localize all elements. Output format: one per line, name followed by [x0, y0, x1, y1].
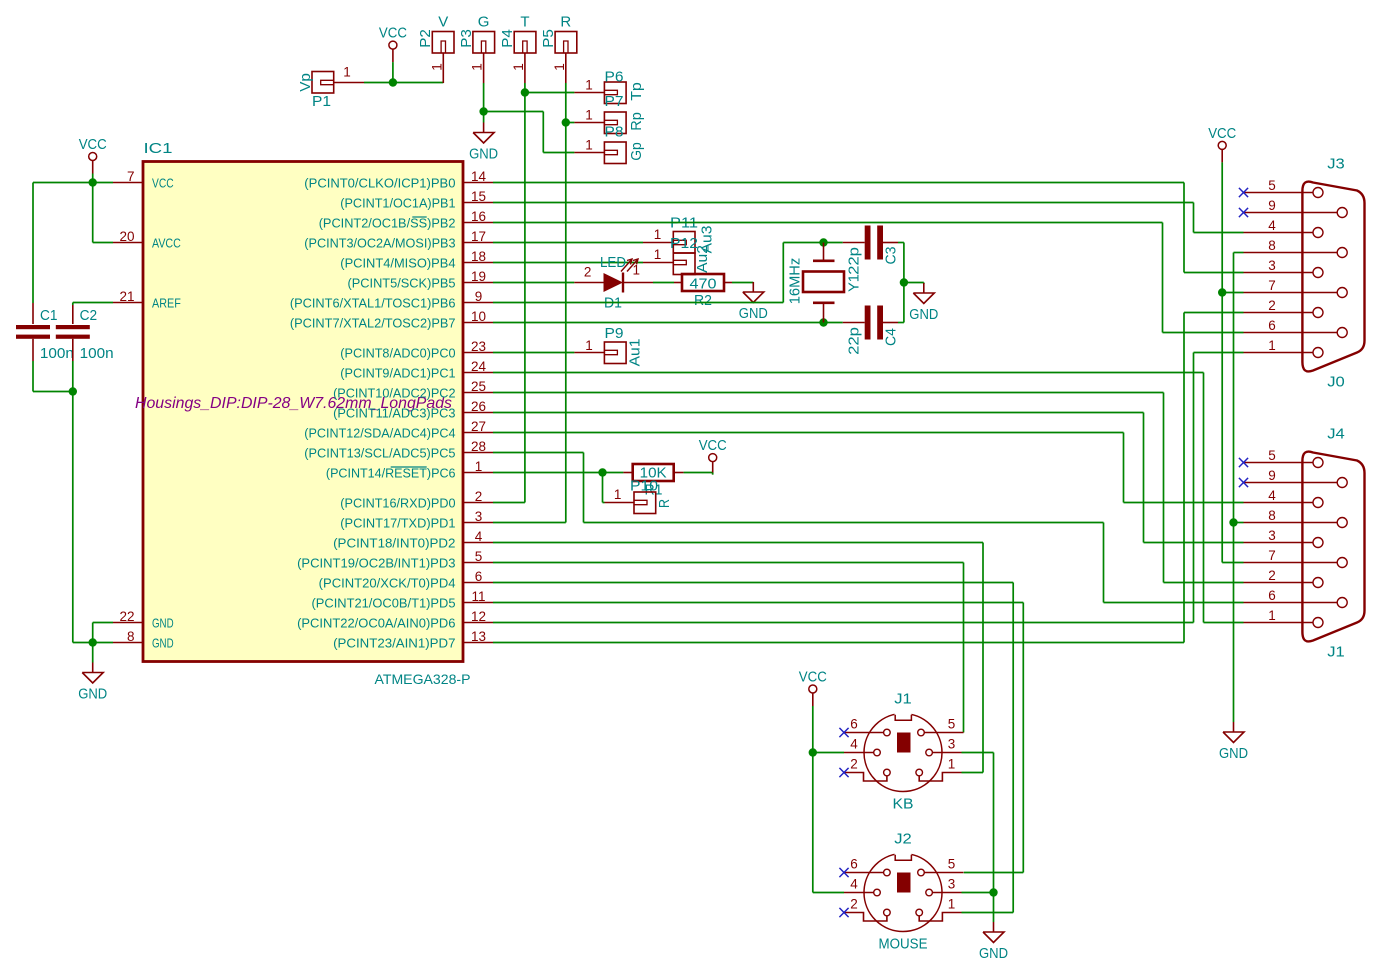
svg-text:J2: J2: [894, 831, 912, 848]
svg-text:7: 7: [1268, 278, 1276, 293]
svg-text:Au3: Au3: [698, 226, 715, 254]
svg-text:J0: J0: [1327, 374, 1345, 391]
svg-text:100n: 100n: [80, 345, 114, 362]
svg-text:15: 15: [471, 189, 486, 204]
svg-text:2: 2: [475, 489, 483, 504]
svg-text:(PCINT16/RXD)PD0: (PCINT16/RXD)PD0: [340, 496, 455, 511]
svg-text:23: 23: [471, 339, 486, 354]
svg-text:(PCINT11/ADC3)PC3: (PCINT11/ADC3)PC3: [333, 406, 455, 421]
svg-text:V: V: [438, 14, 448, 31]
svg-text:C4: C4: [882, 328, 899, 346]
svg-text:19: 19: [471, 269, 486, 284]
svg-text:4: 4: [850, 737, 858, 752]
svg-text:16: 16: [471, 209, 486, 224]
svg-text:3: 3: [948, 737, 956, 752]
svg-text:VCC: VCC: [379, 25, 407, 42]
svg-text:(PCINT1/OC1A)PB1: (PCINT1/OC1A)PB1: [340, 196, 455, 211]
svg-text:G: G: [478, 14, 490, 31]
svg-text:(PCINT5/SCK)PB5: (PCINT5/SCK)PB5: [348, 276, 456, 291]
svg-text:26: 26: [471, 399, 486, 414]
svg-text:Gp: Gp: [628, 142, 645, 161]
svg-text:P2: P2: [417, 29, 434, 48]
svg-text:P7: P7: [605, 93, 624, 110]
svg-text:(PCINT8/ADC0)PC0: (PCINT8/ADC0)PC0: [340, 346, 455, 361]
svg-text:LED: LED: [600, 254, 626, 271]
svg-text:Vp: Vp: [297, 73, 314, 92]
svg-text:22: 22: [119, 609, 134, 624]
svg-text:KB: KB: [893, 796, 914, 813]
svg-text:P6: P6: [605, 69, 624, 86]
svg-text:R: R: [656, 499, 673, 508]
svg-text:5: 5: [948, 717, 956, 732]
svg-text:6: 6: [850, 857, 858, 872]
svg-text:14: 14: [471, 169, 487, 184]
svg-text:3: 3: [1268, 258, 1276, 273]
svg-text:9: 9: [1268, 198, 1276, 213]
svg-text:5: 5: [1268, 448, 1276, 463]
svg-text:J3: J3: [1327, 156, 1345, 173]
svg-text:(PCINT9/ADC1)PC1: (PCINT9/ADC1)PC1: [340, 366, 455, 381]
svg-text:(PCINT7/XTAL2/TOSC2)PB7: (PCINT7/XTAL2/TOSC2)PB7: [290, 316, 456, 331]
svg-text:GND: GND: [909, 306, 938, 323]
svg-text:4: 4: [1268, 218, 1276, 233]
svg-text:5: 5: [475, 549, 483, 564]
svg-text:(PCINT23/AIN1)PD7: (PCINT23/AIN1)PD7: [333, 636, 455, 651]
svg-text:R: R: [560, 14, 571, 31]
svg-text:8: 8: [127, 629, 135, 644]
svg-text:1: 1: [511, 63, 526, 71]
svg-text:(PCINT19/OC2B/INT1)PD3: (PCINT19/OC2B/INT1)PD3: [297, 556, 455, 571]
svg-text:1: 1: [585, 138, 593, 153]
svg-text:11: 11: [471, 589, 485, 604]
svg-text:2: 2: [1268, 298, 1276, 313]
svg-text:(PCINT10/ADC2)PC2: (PCINT10/ADC2)PC2: [333, 386, 455, 401]
svg-text:ATMEGA328-P: ATMEGA328-P: [375, 671, 471, 687]
svg-text:Tp: Tp: [628, 82, 645, 101]
svg-text:3: 3: [948, 877, 956, 892]
svg-text:1: 1: [470, 63, 485, 71]
svg-text:6: 6: [1268, 318, 1276, 333]
svg-text:8: 8: [1268, 508, 1276, 523]
svg-text:Rp: Rp: [628, 112, 645, 131]
svg-text:VCC: VCC: [1208, 125, 1236, 142]
svg-text:1: 1: [614, 487, 622, 502]
svg-text:Y1: Y1: [845, 274, 862, 292]
svg-text:9: 9: [1268, 468, 1276, 483]
svg-text:9: 9: [475, 289, 483, 304]
svg-text:AVCC: AVCC: [152, 236, 181, 251]
svg-text:C2: C2: [80, 307, 98, 324]
svg-text:GND: GND: [78, 686, 107, 703]
svg-text:2: 2: [850, 757, 858, 772]
svg-text:GND: GND: [1219, 745, 1248, 762]
svg-text:5: 5: [948, 857, 956, 872]
svg-text:1: 1: [585, 108, 593, 123]
svg-text:P5: P5: [540, 29, 557, 48]
svg-text:1: 1: [948, 897, 956, 912]
svg-text:27: 27: [471, 419, 486, 434]
svg-text:100n: 100n: [40, 345, 74, 362]
svg-text:13: 13: [471, 629, 486, 644]
svg-text:1: 1: [343, 65, 351, 80]
svg-text:J4: J4: [1327, 426, 1345, 443]
svg-text:VCC: VCC: [79, 136, 107, 153]
svg-text:470: 470: [690, 276, 717, 293]
svg-text:VCC: VCC: [799, 669, 827, 686]
svg-text:6: 6: [850, 717, 858, 732]
svg-text:AREF: AREF: [152, 296, 181, 311]
svg-text:(PCINT12/SDA/ADC4)PC4: (PCINT12/SDA/ADC4)PC4: [304, 426, 455, 441]
svg-text:(PCINT21/OC0B/T1)PD5: (PCINT21/OC0B/T1)PD5: [312, 596, 456, 611]
svg-text:(PCINT14/RESET)PC6: (PCINT14/RESET)PC6: [326, 466, 456, 481]
svg-text:12: 12: [471, 609, 486, 624]
svg-text:MOUSE: MOUSE: [879, 936, 928, 953]
svg-text:J1: J1: [894, 691, 912, 708]
svg-text:10: 10: [471, 309, 486, 324]
svg-text:16MHz: 16MHz: [786, 258, 803, 305]
svg-text:(PCINT3/OC2A/MOSI)PB3: (PCINT3/OC2A/MOSI)PB3: [304, 236, 455, 251]
svg-text:1: 1: [948, 757, 956, 772]
svg-text:4: 4: [475, 529, 483, 544]
svg-text:P9: P9: [605, 325, 624, 342]
svg-text:6: 6: [475, 569, 483, 584]
svg-text:7: 7: [1268, 548, 1276, 563]
svg-text:GND: GND: [152, 616, 174, 631]
svg-text:1: 1: [585, 338, 593, 353]
svg-text:P8: P8: [605, 124, 624, 141]
svg-text:1: 1: [585, 78, 593, 93]
svg-text:GND: GND: [739, 305, 768, 322]
svg-text:24: 24: [471, 359, 487, 374]
svg-text:3: 3: [475, 509, 483, 524]
svg-text:C1: C1: [40, 307, 58, 324]
svg-text:P4: P4: [499, 29, 516, 48]
svg-text:GND: GND: [469, 146, 498, 163]
svg-text:Au1: Au1: [626, 339, 643, 367]
svg-text:1: 1: [1268, 608, 1276, 623]
svg-text:IC1: IC1: [144, 140, 173, 157]
svg-text:(PCINT0/CLKO/ICP1)PB0: (PCINT0/CLKO/ICP1)PB0: [304, 176, 455, 191]
svg-text:21: 21: [119, 289, 134, 304]
svg-text:(PCINT18/INT0)PD2: (PCINT18/INT0)PD2: [333, 536, 455, 551]
svg-text:(PCINT2/OC1B/SS)PB2: (PCINT2/OC1B/SS)PB2: [319, 216, 456, 231]
svg-text:C3: C3: [882, 247, 899, 265]
svg-text:2: 2: [584, 265, 592, 280]
svg-text:7: 7: [127, 169, 135, 184]
svg-text:6: 6: [1268, 588, 1276, 603]
svg-text:22p: 22p: [845, 327, 862, 355]
svg-text:18: 18: [471, 249, 486, 264]
svg-text:(PCINT6/XTAL1/TOSC1)PB6: (PCINT6/XTAL1/TOSC1)PB6: [290, 296, 456, 311]
svg-text:P1: P1: [312, 93, 331, 110]
svg-text:P3: P3: [458, 29, 475, 48]
svg-text:(PCINT13/SCL/ADC5)PC5: (PCINT13/SCL/ADC5)PC5: [304, 446, 455, 461]
svg-text:J1: J1: [1327, 644, 1345, 661]
svg-text:5: 5: [1268, 178, 1276, 193]
svg-text:(PCINT22/OC0A/AIN0)PD6: (PCINT22/OC0A/AIN0)PD6: [297, 616, 455, 631]
svg-text:8: 8: [1268, 238, 1276, 253]
svg-text:25: 25: [471, 379, 486, 394]
svg-text:4: 4: [850, 877, 858, 892]
svg-text:2: 2: [1268, 568, 1276, 583]
svg-text:22p: 22p: [845, 247, 862, 275]
svg-text:1: 1: [475, 459, 483, 474]
svg-text:1: 1: [654, 247, 662, 262]
svg-text:R2: R2: [694, 292, 712, 309]
svg-text:1: 1: [1268, 338, 1276, 353]
svg-text:1: 1: [654, 227, 662, 242]
svg-text:2: 2: [850, 897, 858, 912]
svg-text:28: 28: [471, 439, 486, 454]
svg-text:VCC: VCC: [152, 176, 174, 191]
svg-text:4: 4: [1268, 488, 1276, 503]
svg-text:20: 20: [119, 229, 134, 244]
svg-text:GND: GND: [979, 945, 1008, 962]
svg-text:1: 1: [429, 63, 444, 71]
svg-text:(PCINT17/TXD)PD1: (PCINT17/TXD)PD1: [340, 516, 455, 531]
svg-text:R1: R1: [645, 482, 663, 499]
svg-text:T: T: [520, 14, 529, 31]
svg-text:1: 1: [552, 63, 567, 71]
svg-text:GND: GND: [152, 636, 174, 651]
svg-text:3: 3: [1268, 528, 1276, 543]
svg-text:17: 17: [471, 229, 486, 244]
svg-text:VCC: VCC: [699, 437, 727, 454]
svg-text:(PCINT20/XCK/T0)PD4: (PCINT20/XCK/T0)PD4: [319, 576, 456, 591]
svg-text:(PCINT4/MISO)PB4: (PCINT4/MISO)PB4: [340, 256, 455, 271]
